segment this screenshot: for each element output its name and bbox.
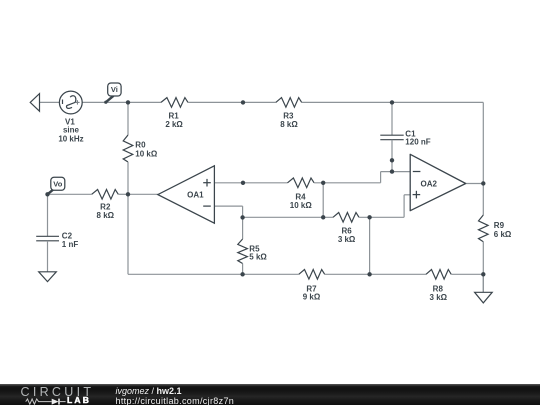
svg-text:OA2: OA2 — [420, 179, 437, 188]
svg-text:sine: sine — [63, 125, 80, 134]
svg-text:5 kΩ: 5 kΩ — [249, 253, 267, 262]
svg-text:1 nF: 1 nF — [62, 240, 79, 249]
svg-text:10 kΩ: 10 kΩ — [135, 149, 158, 158]
svg-text:120 nF: 120 nF — [405, 138, 430, 147]
svg-text:3 kΩ: 3 kΩ — [430, 293, 448, 302]
svg-text:3 kΩ: 3 kΩ — [338, 235, 356, 244]
svg-text:9 kΩ: 9 kΩ — [303, 293, 321, 302]
svg-text:Vo: Vo — [53, 179, 62, 188]
svg-text:OA1: OA1 — [187, 191, 204, 200]
svg-text:Vi: Vi — [111, 85, 118, 94]
svg-text:R9: R9 — [494, 221, 505, 230]
svg-text:6 kΩ: 6 kΩ — [494, 230, 512, 239]
svg-text:10 kΩ: 10 kΩ — [290, 201, 313, 210]
svg-text:8 kΩ: 8 kΩ — [97, 211, 115, 220]
svg-text:8 kΩ: 8 kΩ — [280, 120, 298, 129]
svg-text:2 kΩ: 2 kΩ — [165, 120, 183, 129]
svg-text:10 kHz: 10 kHz — [58, 135, 83, 144]
